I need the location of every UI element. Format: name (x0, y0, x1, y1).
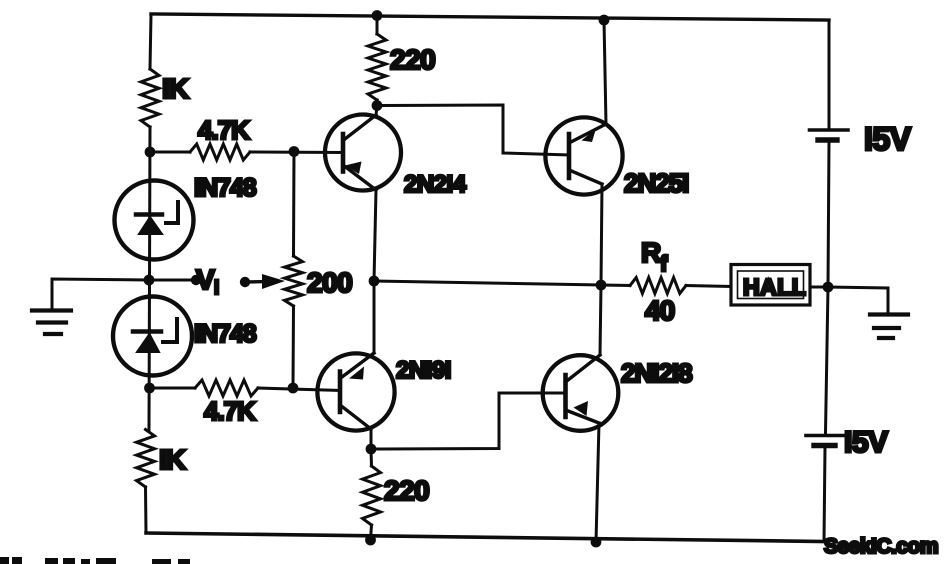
wire pot top lead (292, 152, 296, 257)
transistor Q2 2N191 (317, 353, 394, 431)
node 1K/4.7K top junction (145, 147, 156, 158)
diode D1 cathode bar (136, 212, 162, 217)
node top rail junction B (599, 15, 610, 26)
svg-text:f: f (660, 251, 668, 276)
node top rail junction A (372, 10, 383, 21)
resistor R5 200 pot zigzag (285, 256, 303, 306)
wire base row top with 4.7K (150, 151, 190, 154)
wire 4.7K to 2N191 base (258, 388, 340, 391)
diode D1 zener 1N748 top circle (115, 181, 194, 260)
HALL element box (731, 265, 810, 306)
wire Q3 collector down to Rf node (601, 184, 602, 285)
caption fragments bottom edge (0, 557, 190, 564)
resistor R1 1K top zigzag (141, 69, 159, 127)
wire mid horizontal (374, 281, 601, 285)
svg-text:V: V (196, 264, 215, 295)
wire Q1 emitter down to mid node (374, 190, 376, 281)
svg-text:HALL: HALL (743, 274, 806, 300)
svg-text:4.7K: 4.7K (198, 115, 250, 145)
wire HALL node down to battery B2 (826, 287, 829, 433)
ground right (870, 315, 908, 339)
svg-text:2NI2I8: 2NI2I8 (621, 358, 692, 388)
wire wiper arrow shaft (245, 280, 270, 284)
node bottom rail junction A (365, 535, 376, 546)
svg-text:2NI9I: 2NI9I (396, 357, 451, 384)
battery B1 15V top (810, 130, 849, 140)
svg-text:220: 220 (384, 475, 429, 506)
wire left ground run (52, 279, 149, 309)
wire Q1 collector to node (376, 106, 377, 115)
resistor R2 1K bottom zigzag (137, 430, 155, 488)
wire Vi stub (150, 279, 195, 282)
svg-text:2N2I4: 2N2I4 (404, 171, 467, 198)
wire bottom supply rail (146, 533, 824, 542)
node left mid junction (144, 275, 155, 286)
svg-text:SeekIC.com: SeekIC.com (824, 535, 938, 558)
node pot wiper dot (240, 277, 250, 287)
wire HALL to right node (810, 286, 828, 289)
wire Q2 emitter up to mid node (373, 281, 376, 353)
resistor R8 Rf (601, 284, 630, 288)
svg-text:IK: IK (162, 73, 189, 104)
resistor R3 4.7K top zigzag (190, 144, 250, 160)
node pot bottom junction (288, 383, 299, 394)
svg-text:I5V: I5V (844, 426, 888, 459)
svg-text:IK: IK (159, 444, 186, 475)
svg-text:R: R (641, 237, 661, 268)
ground left (32, 311, 71, 335)
wire top supply rail (151, 14, 829, 20)
svg-text:i: i (214, 278, 219, 299)
svg-text:IN748: IN748 (194, 320, 257, 348)
diode D2 cathode bar (133, 329, 161, 334)
wiper arrowhead (262, 274, 285, 289)
diode D1 triangle (139, 217, 162, 234)
wire battery B1 to HALL node (828, 142, 829, 287)
diode D2 zener bracket (163, 319, 177, 342)
node Q2 collector junction (366, 444, 377, 455)
svg-text:40: 40 (645, 295, 675, 326)
battery B2 15V bottom (806, 436, 844, 446)
svg-text:I5V: I5V (864, 121, 912, 157)
transistor Q4 2N1218 (543, 355, 619, 431)
wire left branch upper (150, 14, 151, 69)
wire Q4 emitter down to bottom rail (596, 423, 599, 542)
node Vi terminal dot (191, 275, 201, 285)
wire Q4 collector up to Rf node (600, 285, 601, 355)
diode D2 zener 1N748 bottom circle (113, 297, 192, 376)
svg-text:4.7K: 4.7K (204, 396, 256, 426)
wire jog Q2 node to Q4 base (371, 393, 565, 449)
wire 4.7K to 2N214 base (250, 151, 343, 155)
wire Q2 collector down (370, 429, 373, 449)
node Q1 collector junction (372, 100, 383, 111)
diode D1 zener bracket (166, 202, 178, 223)
wire Q3 emitter to top rail (604, 20, 606, 124)
node mid-right junction (596, 280, 607, 291)
wire left branch lower (144, 487, 148, 533)
wire left branch middle (149, 127, 150, 430)
node 1K/4.7K bottom junction (144, 383, 155, 394)
resistor R6 220 top zigzag (376, 16, 379, 34)
wire right ground run (828, 287, 888, 313)
wire battery B2 to bottom rail (824, 448, 825, 542)
node HALL right junction (823, 282, 834, 293)
resistor R7 220 bottom zigzag (370, 449, 374, 466)
svg-text:200: 200 (307, 267, 352, 298)
node bottom rail junction B (591, 537, 602, 548)
resistor R4 4.7K bottom zigzag (195, 380, 258, 396)
diode D2 triangle (137, 334, 159, 352)
node mid-left junction (369, 276, 380, 287)
svg-text:2N25I: 2N25I (624, 168, 688, 198)
transistor Q1 2N214 (325, 115, 401, 191)
wire base row bottom with 4.7K (150, 387, 195, 390)
node 4.7K/pot top junction (289, 146, 300, 157)
wire jog Q1 node to Q3 base (377, 105, 569, 155)
wire right rail top (828, 20, 831, 128)
transistor Q3 2N251 (545, 117, 622, 194)
wire pot bottom lead (292, 306, 296, 388)
svg-text:220: 220 (390, 44, 435, 75)
svg-text:IN748: IN748 (194, 174, 257, 202)
